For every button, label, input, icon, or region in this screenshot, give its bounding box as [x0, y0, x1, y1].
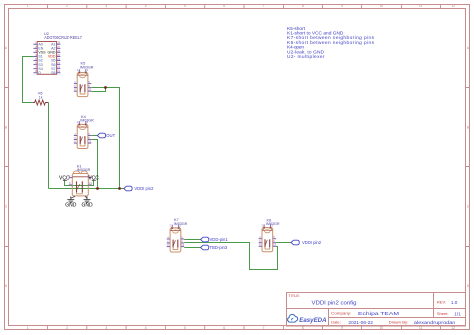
svg-text:1/1: 1/1: [454, 312, 461, 317]
svg-text:9: 9: [341, 326, 343, 330]
svg-text:5: 5: [184, 326, 186, 330]
svg-text:2: 2: [66, 326, 68, 330]
relay K4: [74, 120, 92, 148]
relay K6: [259, 223, 277, 251]
svg-text:IM03GR: IM03GR: [174, 221, 188, 226]
svg-text:TBD-pin3: TBD-pin3: [210, 245, 228, 250]
svg-text:6: 6: [223, 4, 225, 8]
svg-text:IM03GR: IM03GR: [80, 118, 94, 123]
frame zone numbers bottom: [27, 326, 455, 330]
U2 right pins: [57, 44, 61, 72]
svg-text:Echipa TEAM: Echipa TEAM: [358, 311, 399, 316]
notes text block: [287, 26, 375, 60]
net flag OUT: [97, 133, 105, 138]
svg-text:Company:: Company:: [331, 311, 351, 316]
frame zone letters left: [5, 46, 8, 288]
svg-text:Date:: Date:: [331, 319, 341, 324]
relay K7: [167, 224, 185, 252]
svg-text:Drawn By:: Drawn By:: [389, 319, 409, 324]
svg-text:12: 12: [452, 326, 456, 330]
wire K5 right pins join: [91, 88, 105, 92]
svg-text:U2- multiplexer: U2- multiplexer: [287, 54, 325, 60]
svg-text:4: 4: [145, 4, 147, 8]
wire main net VDDI pin2 horizontal: [49, 188, 124, 190]
svg-text:D: D: [38, 71, 41, 75]
svg-text:2021-06-22: 2021-06-22: [348, 320, 373, 325]
svg-text:EasyEDA: EasyEDA: [299, 317, 327, 324]
wire K1 to GND left: [71, 197, 75, 199]
svg-text:5: 5: [184, 4, 186, 8]
net flag TBD-pin3: [201, 245, 209, 250]
title block frame: [287, 293, 466, 327]
svg-text:VDDI pin2: VDDI pin2: [134, 186, 154, 191]
svg-text:ADG706CRUZ-REEL7: ADG706CRUZ-REEL7: [44, 35, 82, 40]
relay K1 body: [69, 171, 93, 197]
svg-text:1k: 1k: [39, 95, 43, 99]
wire K5 to vertical drop: [106, 88, 120, 189]
svg-text:4: 4: [145, 326, 147, 330]
svg-text:B: B: [467, 125, 469, 129]
svg-text:VDD-pin1: VDD-pin1: [210, 237, 229, 242]
wire K1 to GND right: [85, 197, 87, 199]
svg-text:7: 7: [263, 326, 265, 330]
svg-text:3: 3: [105, 4, 107, 8]
net flag VDD-pin1: [201, 237, 209, 242]
frame zone ticks left: [5, 88, 9, 247]
svg-text:7: 7: [263, 4, 265, 8]
svg-text:IM03GR: IM03GR: [80, 64, 94, 69]
wire K4 row2 drop to net: [91, 140, 97, 189]
svg-text:9: 9: [341, 4, 343, 8]
ground GND left: [65, 196, 77, 208]
U2 left pin names: [38, 43, 46, 75]
svg-text:10: 10: [380, 326, 384, 330]
junction dot K5 pins: [104, 86, 107, 89]
U2 left pin numbers: [35, 41, 37, 73]
wire K7 row1 to VDD-pin1: [184, 239, 200, 241]
frame zone numbers top: [27, 4, 455, 8]
svg-text:1: 1: [27, 326, 29, 330]
net flag VDDI pin2 bottom: [291, 240, 299, 245]
svg-text:VDDI pin2: VDDI pin2: [302, 240, 322, 245]
svg-text:8: 8: [302, 4, 304, 8]
EasyEDA logo cloud: [287, 314, 298, 322]
svg-text:2: 2: [66, 4, 68, 8]
wire U2.S1 to R6: [23, 57, 34, 103]
svg-text:8: 8: [302, 326, 304, 330]
wire K1 internal VCC pass: [72, 185, 88, 187]
junction dot K5 net: [118, 187, 121, 190]
svg-text:11: 11: [419, 326, 423, 330]
ground GND right: [81, 196, 93, 208]
svg-text:12: 12: [452, 4, 456, 8]
svg-text:B: B: [5, 125, 7, 129]
svg-text:OUT: OUT: [106, 133, 115, 138]
svg-text:alexandruprodan: alexandruprodan: [414, 320, 456, 325]
svg-text:6: 6: [223, 326, 225, 330]
wire K4 row1 to OUT: [91, 135, 97, 137]
U2 right pin names: [48, 43, 56, 75]
U2 right pin numbers: [57, 41, 60, 73]
svg-text:3: 3: [105, 326, 107, 330]
svg-text:IM03GR: IM03GR: [77, 167, 91, 172]
wire VCC right to K1: [88, 180, 93, 185]
svg-text:S8: S8: [51, 71, 55, 75]
U2 left pins: [33, 44, 37, 72]
svg-text:Sheet:: Sheet:: [437, 311, 449, 316]
svg-text:1: 1: [27, 4, 29, 8]
relay K5: [74, 68, 92, 96]
svg-text:TITLE:: TITLE:: [288, 293, 300, 298]
power flag VCC right: [88, 176, 99, 182]
svg-text:VDDI pin2 config: VDDI pin2 config: [312, 300, 357, 306]
wire K7 row2 to K6 bottom: [184, 243, 277, 270]
svg-text:11: 11: [419, 4, 423, 8]
power flag VCC left: [59, 176, 70, 182]
svg-text:10: 10: [380, 4, 384, 8]
wire K7 row3 to TBD-pin3: [184, 247, 200, 249]
IC U2 body: [37, 42, 56, 75]
frame zone ticks top: [48, 5, 441, 9]
junction dot K4 net: [96, 187, 99, 190]
resistor R6: [33, 100, 49, 105]
frame zone ticks right: [466, 88, 470, 247]
wire R6 down to net: [48, 103, 50, 189]
net flag VDDI pin2 mid: [124, 186, 132, 191]
wire K6 row2 to VDDI pin2: [276, 242, 291, 244]
svg-text:1.0: 1.0: [451, 300, 458, 305]
wire VCC left to K1: [65, 180, 73, 185]
svg-text:REV:: REV:: [437, 299, 446, 304]
frame zone letters right: [467, 46, 470, 288]
frame zone ticks bottom: [48, 326, 441, 330]
svg-text:IM03GR: IM03GR: [266, 221, 280, 226]
